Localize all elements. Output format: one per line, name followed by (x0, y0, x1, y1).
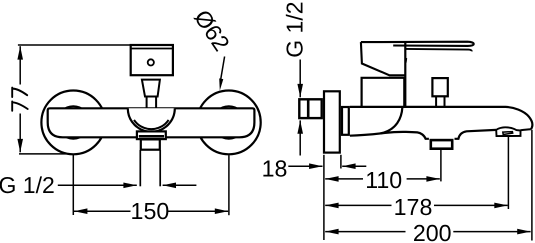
svg-text:110: 110 (365, 167, 402, 193)
svg-text:200: 200 (413, 220, 452, 243)
svg-text:18: 18 (262, 156, 288, 182)
svg-text:150: 150 (131, 198, 170, 224)
svg-text:178: 178 (394, 194, 433, 220)
svg-text:G 1/2: G 1/2 (282, 1, 308, 57)
svg-text:G 1/2: G 1/2 (0, 172, 55, 198)
